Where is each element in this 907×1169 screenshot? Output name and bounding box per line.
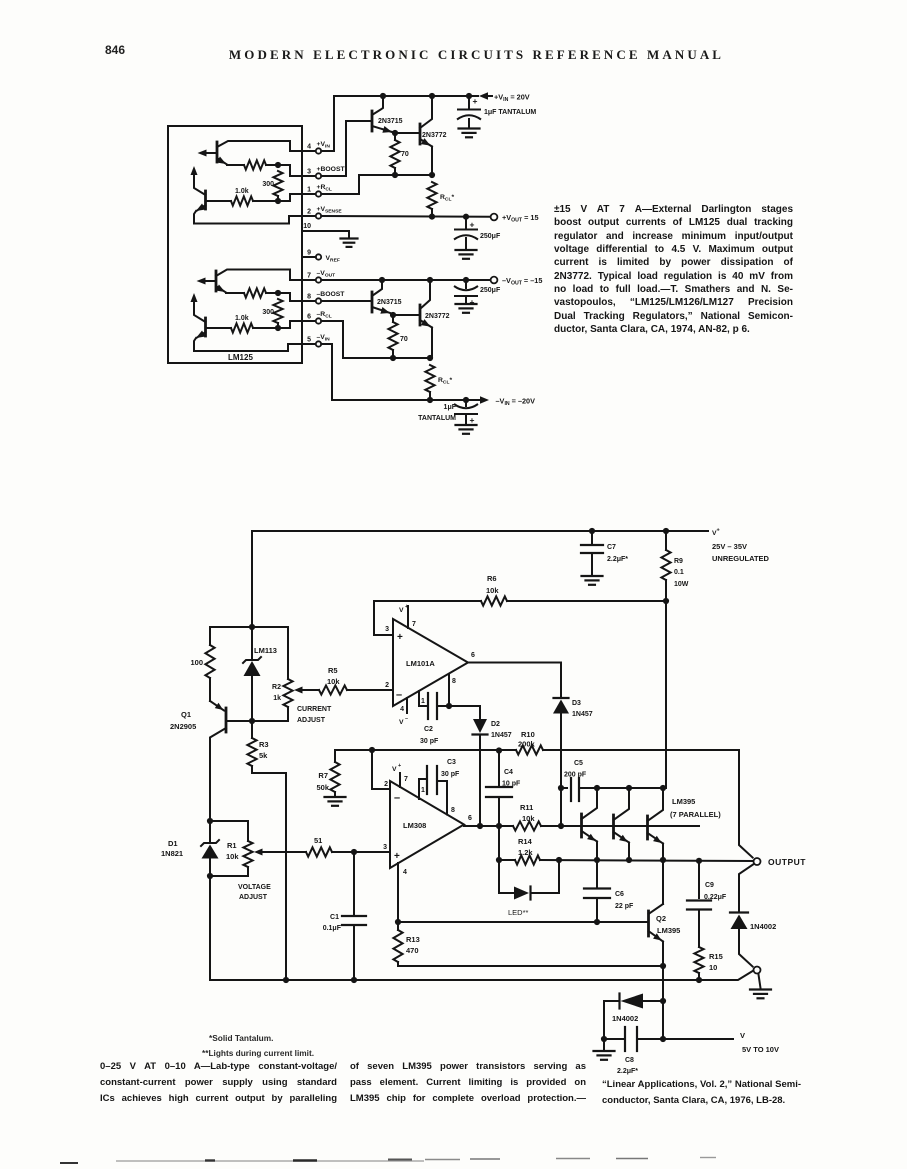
node collector #1 xyxy=(594,785,600,791)
svg-text:2N3715: 2N3715 xyxy=(377,299,402,306)
svg-text:+: + xyxy=(470,297,475,307)
svg-text:C9: C9 xyxy=(705,882,714,889)
node C8 line / Q2 emitter column xyxy=(660,1036,666,1042)
node out/2N3715 collector (lower) xyxy=(379,277,385,283)
internal resistor 300 (lower) xyxy=(262,299,282,328)
arrowhead on -V rail xyxy=(480,396,489,404)
IC U1 LM125 outline xyxy=(168,126,302,363)
svg-text:+: + xyxy=(470,415,475,425)
wire pin8 node to D2 xyxy=(449,706,480,719)
node sense/250uF xyxy=(463,214,469,220)
svg-text:R14: R14 xyxy=(518,837,533,846)
svg-text:–BOOST: –BOOST xyxy=(317,291,346,298)
pin 6 of LM125 xyxy=(307,311,332,324)
svg-text:+: + xyxy=(470,220,475,230)
resistor RCL* (lower) xyxy=(425,365,452,400)
node rail/tantalum (lower) xyxy=(463,397,469,403)
description paragraph (top circuit) xyxy=(554,203,793,336)
svg-text:10 pF: 10 pF xyxy=(502,781,521,788)
R13 return line xyxy=(398,965,663,967)
svg-text:C2: C2 xyxy=(424,726,433,733)
svg-text:470: 470 xyxy=(406,946,419,955)
svg-text:R15: R15 xyxy=(709,952,723,961)
svg-text:+VIN​ = 20V: +VIN​ = 20V xyxy=(494,93,530,104)
node LM308 out / C4 / R14 xyxy=(496,823,502,829)
svg-text:+BOOST: +BOOST xyxy=(317,166,346,173)
node rail/2N3772 collector xyxy=(429,93,435,99)
svg-text:22 pF: 22 pF xyxy=(615,903,634,910)
Q2 base line xyxy=(398,921,648,923)
label -VIN = -20V xyxy=(496,397,536,408)
svg-text:–VIN​ = –20V: –VIN​ = –20V xyxy=(496,397,536,408)
node emitter #2 xyxy=(626,857,632,863)
svg-text:2.2μF*: 2.2μF* xyxy=(607,556,628,563)
svg-text:8: 8 xyxy=(307,294,311,301)
ground below tantalum (lower) xyxy=(456,425,477,434)
svg-text:10: 10 xyxy=(709,963,717,972)
node RCL top (lower) xyxy=(427,355,433,361)
wire 1N4002 to C8 node xyxy=(603,1001,605,1039)
svg-text:V: V xyxy=(399,719,404,726)
svg-text:TANTALUM: TANTALUM xyxy=(418,415,456,422)
resistor R14 1.2k xyxy=(496,826,540,865)
node 2N3715 emitter / base / 70 (lower) xyxy=(390,312,396,318)
node rail/C1 xyxy=(351,977,357,983)
R10 feedback line to output xyxy=(335,730,753,858)
label LM395 (7 PARALLEL) xyxy=(670,797,721,819)
svg-text:C5: C5 xyxy=(574,760,583,767)
svg-text:R13: R13 xyxy=(406,935,420,944)
svg-text:250μF: 250μF xyxy=(480,233,501,240)
diode D3 1N457 xyxy=(553,663,593,789)
pin 1 of LM125 xyxy=(307,184,332,197)
node collector #2 xyxy=(626,785,632,791)
svg-text:9: 9 xyxy=(307,250,311,257)
node D3 / C5 xyxy=(558,785,564,791)
svg-text:1: 1 xyxy=(421,787,425,794)
node rail/R3 xyxy=(283,977,289,983)
wire pin6 to current-limit node (lower) xyxy=(321,321,430,358)
node R10 line / C4 xyxy=(496,747,502,753)
emitter/output line xyxy=(540,860,753,861)
svg-text:2N3772: 2N3772 xyxy=(422,132,447,139)
svg-text:D3: D3 xyxy=(572,700,581,707)
svg-text:UNREGULATED: UNREGULATED xyxy=(712,554,770,563)
node emitter #3 xyxy=(660,857,666,863)
svg-text:LED**: LED** xyxy=(508,908,529,917)
collector rail xyxy=(579,787,666,789)
svg-text:Q1: Q1 xyxy=(181,710,191,719)
capacitor 1uF tantalum (upper) xyxy=(457,96,536,128)
svg-text:1.0k: 1.0k xyxy=(235,315,249,322)
svg-text:1N4002: 1N4002 xyxy=(612,1014,638,1023)
svg-text:+: + xyxy=(405,604,408,610)
V+ column down to collector rail xyxy=(665,601,667,788)
svg-text:51: 51 xyxy=(314,836,322,845)
svg-text:0.1: 0.1 xyxy=(674,569,684,576)
caption column 3 xyxy=(602,1077,801,1109)
svg-text:+: + xyxy=(398,763,401,769)
node collector #3 xyxy=(660,785,666,791)
pin 3 of LM125 xyxy=(307,166,345,179)
svg-text:CURRENT: CURRENT xyxy=(297,706,332,713)
svg-text:D1: D1 xyxy=(168,839,178,848)
capacitor C5 200pF xyxy=(561,760,598,801)
ground below 250uF (lower) xyxy=(456,304,477,313)
svg-text:2: 2 xyxy=(384,781,388,788)
resistor R11 10k xyxy=(513,803,699,831)
svg-text:LM395: LM395 xyxy=(657,926,680,935)
caption column 2 xyxy=(350,1059,586,1107)
svg-text:RCL​*: RCL​* xyxy=(440,194,454,203)
resistor R7 50k xyxy=(316,750,339,796)
node LM113/R2/Q1 base/R3 xyxy=(249,718,255,724)
svg-text:5V TO 10V: 5V TO 10V xyxy=(742,1045,779,1054)
transistor LM395 #1 xyxy=(582,788,598,860)
capacitor 1uF tantalum (lower) xyxy=(418,400,478,425)
node pin8/C2/D2 xyxy=(446,703,452,709)
svg-text:300: 300 xyxy=(262,181,274,188)
resistor 70 (upper) xyxy=(390,133,408,175)
svg-text:10k: 10k xyxy=(226,852,239,861)
svg-text:1N457: 1N457 xyxy=(572,711,593,718)
diode 1N4002 (across output) xyxy=(730,865,776,967)
node C8 / ground xyxy=(601,1036,607,1042)
resistor R13 470 xyxy=(393,863,419,966)
svg-text:1: 1 xyxy=(307,187,311,194)
svg-text:8: 8 xyxy=(452,678,456,685)
svg-text:2N3772: 2N3772 xyxy=(425,313,450,320)
svg-text:VOLTAGE: VOLTAGE xyxy=(238,884,271,891)
resistor 51 xyxy=(306,836,389,857)
+V sense line to output xyxy=(321,215,490,218)
svg-text:C7: C7 xyxy=(607,544,616,551)
transistor 2N3715 (upper) xyxy=(321,96,402,176)
transistor LM395 #3 xyxy=(648,788,664,860)
svg-text:R5: R5 xyxy=(328,666,338,675)
svg-text:C4: C4 xyxy=(504,769,513,776)
svg-text:1k: 1k xyxy=(273,695,281,702)
lower output terminal xyxy=(754,967,761,974)
svg-text:70: 70 xyxy=(401,151,409,158)
svg-text:RCL​*: RCL​* xyxy=(438,377,452,386)
svg-text:30 pF: 30 pF xyxy=(441,771,460,778)
node RCL top xyxy=(429,172,435,178)
transistor 2N3715 (lower) xyxy=(321,280,401,314)
+V input rail 20V xyxy=(334,95,492,97)
svg-text:10k: 10k xyxy=(522,814,535,823)
node 100/LM113/R2 xyxy=(249,624,255,630)
svg-text:+: + xyxy=(397,632,403,643)
svg-text:4: 4 xyxy=(400,706,404,713)
svg-text:–: – xyxy=(405,716,408,722)
node rail/2N3715 collector xyxy=(380,93,386,99)
LM125 internal transistor T1a xyxy=(198,141,316,165)
svg-text:30 pF: 30 pF xyxy=(420,738,439,745)
svg-text:R3: R3 xyxy=(259,740,269,749)
transistor LM395 #2 xyxy=(614,788,630,860)
svg-text:2: 2 xyxy=(385,682,389,689)
svg-text:100: 100 xyxy=(190,658,203,667)
resistor R9 0.1 10W xyxy=(661,531,688,601)
node line LM113 top xyxy=(210,626,288,628)
svg-text:1N4002: 1N4002 xyxy=(750,922,776,931)
ground below 250uF (upper) xyxy=(456,250,477,259)
pin 9 stub wire xyxy=(302,256,316,258)
transistor Q2 LM395 xyxy=(649,860,681,1039)
svg-text:8: 8 xyxy=(451,807,455,814)
ground below tantalum (upper) xyxy=(459,129,480,138)
svg-text:200k: 200k xyxy=(518,740,536,749)
feedback resistor R6 10k xyxy=(374,574,666,635)
capacitor C2 30pF xyxy=(419,693,449,745)
svg-text:1: 1 xyxy=(421,698,425,705)
svg-text:0.1μF: 0.1μF xyxy=(323,925,342,932)
svg-text:ADJUST: ADJUST xyxy=(297,717,326,724)
svg-text:1μF: 1μF xyxy=(444,404,457,411)
svg-text:4: 4 xyxy=(403,869,407,876)
capacitor 250uF (lower) xyxy=(454,280,501,307)
svg-text:R7: R7 xyxy=(318,771,328,780)
svg-text:1N821: 1N821 xyxy=(161,849,183,858)
wire to LM308 pin 2 xyxy=(372,750,389,789)
svg-text:LM101A: LM101A xyxy=(406,659,435,668)
capacitor C4 10pF xyxy=(486,751,521,827)
svg-text:70: 70 xyxy=(400,336,408,343)
label V+ 25V-35V UNREGULATED xyxy=(712,528,770,564)
capacitor 250uF (upper) xyxy=(454,217,501,249)
svg-text:C1: C1 xyxy=(330,914,339,921)
node return line / Q2 emitter xyxy=(660,963,666,969)
pin 8 of LM125 xyxy=(307,291,345,304)
svg-text:25V – 35V: 25V – 35V xyxy=(712,542,747,551)
svg-text:3: 3 xyxy=(383,844,387,851)
svg-text:V: V xyxy=(399,607,404,614)
output terminal -VOUT xyxy=(491,276,543,287)
transistor 2N3772 (lower) xyxy=(393,280,450,358)
svg-text:10k: 10k xyxy=(327,677,340,686)
ground at lower terminal xyxy=(750,975,771,999)
svg-text:–: – xyxy=(394,792,400,804)
svg-text:Q2: Q2 xyxy=(656,914,666,923)
svg-text:2N3715: 2N3715 xyxy=(378,118,403,125)
svg-text:10k: 10k xyxy=(486,586,499,595)
svg-text:LM395: LM395 xyxy=(672,797,695,806)
capacitor C7 2.2uF xyxy=(581,531,628,575)
svg-text:LM308: LM308 xyxy=(403,821,426,830)
node base line / C6 xyxy=(594,919,600,925)
svg-text:250μF: 250μF xyxy=(480,287,501,294)
ground at pin 10 xyxy=(341,239,358,247)
pin 9 of LM125 xyxy=(307,250,340,264)
ground below R7 xyxy=(325,797,346,806)
pin 4 of LM125 xyxy=(307,141,330,154)
pin 7 of LM125 xyxy=(307,270,335,283)
svg-text:ADJUST: ADJUST xyxy=(239,894,268,901)
svg-text:50k: 50k xyxy=(316,783,329,792)
node 70 ohm bottom xyxy=(392,172,398,178)
LM125 internal transistor T1b xyxy=(191,166,316,224)
resistor R15 10 xyxy=(694,947,722,980)
wire pin1 to current-limit node xyxy=(321,175,432,194)
OUTPUT terminal xyxy=(754,857,807,867)
footnotes xyxy=(209,1033,273,1043)
transistor 2N3772 (upper) xyxy=(395,96,447,175)
svg-text:+: + xyxy=(394,851,400,862)
arrowhead on +V rail xyxy=(479,92,488,100)
pin 5 of LM125 xyxy=(307,334,330,347)
svg-text:2.2μF*: 2.2μF* xyxy=(617,1068,638,1075)
svg-text:R1: R1 xyxy=(227,841,237,850)
node Q1 collector / D1 / R1 xyxy=(207,818,213,824)
pin 2 of LM125 xyxy=(307,206,342,219)
node: junction 1.0k / 300 / pin 1 xyxy=(275,194,316,204)
svg-text:3: 3 xyxy=(385,626,389,633)
svg-text:OUTPUT: OUTPUT xyxy=(768,857,806,867)
internal resistor (upper, unlabeled) xyxy=(227,160,278,169)
svg-text:6: 6 xyxy=(468,815,472,822)
resistor R3 5k xyxy=(247,721,286,980)
ground return rail (bottom) xyxy=(210,876,753,980)
node 2N3715 emitter / 2N3772 base / 70 ohm xyxy=(392,130,398,136)
svg-text:R6: R6 xyxy=(487,574,497,583)
svg-text:1.0k: 1.0k xyxy=(235,188,249,195)
svg-text:1N457: 1N457 xyxy=(491,732,512,739)
node R9/R6 feedback xyxy=(663,598,669,604)
resistor 100 xyxy=(190,627,214,701)
node base line / D3 xyxy=(558,823,564,829)
svg-text:5: 5 xyxy=(307,337,311,344)
diode D2 1N457 xyxy=(473,719,512,826)
LED (lights during current limit) xyxy=(499,860,559,917)
svg-text:LM113: LM113 xyxy=(254,646,277,655)
node 70 bottom (lower) xyxy=(390,355,396,361)
svg-text:VREF​: VREF​ xyxy=(326,255,340,264)
bottom scan rule xyxy=(60,1158,716,1164)
svg-text:200 pF: 200 pF xyxy=(564,772,587,779)
svg-text:4: 4 xyxy=(307,144,311,151)
svg-text:7: 7 xyxy=(307,273,311,280)
ground below C8 node xyxy=(594,1039,615,1060)
diode 1N4002 (bottom clamp) xyxy=(604,994,663,1024)
svg-text:7: 7 xyxy=(412,621,416,628)
svg-text:1.2k: 1.2k xyxy=(518,848,533,857)
node rail/R9 xyxy=(663,528,669,534)
svg-text:1μF TANTALUM: 1μF TANTALUM xyxy=(484,109,536,116)
node LM308 pin4 / R13 / Q2 base xyxy=(395,919,401,925)
LM125 internal transistor T2a xyxy=(197,270,316,293)
svg-text:–: – xyxy=(396,689,402,701)
svg-text:V: V xyxy=(740,1031,745,1040)
zener diode D1 1N821 xyxy=(161,821,219,876)
internal resistor (lower, unlabeled) xyxy=(226,288,278,297)
svg-text:LM125: LM125 xyxy=(228,353,253,362)
capacitor C8 2.2uF xyxy=(604,1027,733,1075)
svg-text:2: 2 xyxy=(307,209,311,216)
-V out line xyxy=(321,279,490,281)
node rail/RCL (lower) xyxy=(427,397,433,403)
svg-text:–VOUT​ = –15: –VOUT​ = –15 xyxy=(502,276,542,287)
op-amp U3 LM308 xyxy=(383,763,472,876)
svg-text:300: 300 xyxy=(262,309,274,316)
transistor Q1 2N2905 xyxy=(170,701,252,821)
op-amp U2 LM101A xyxy=(385,604,475,726)
svg-text:R2: R2 xyxy=(272,684,281,691)
svg-text:10W: 10W xyxy=(674,581,689,588)
node Q2 emitter / 1N4002 anode xyxy=(660,998,666,1004)
svg-text:6: 6 xyxy=(307,314,311,321)
svg-text:+: + xyxy=(473,96,478,106)
IC U1 label LM125 xyxy=(228,353,253,362)
svg-text:C6: C6 xyxy=(615,891,624,898)
zener diode LM113 xyxy=(243,627,277,721)
-V input rail -20V xyxy=(332,399,480,401)
internal resistor 1.0k (upper) xyxy=(207,188,278,206)
svg-text:3: 3 xyxy=(307,169,311,176)
svg-text:D2: D2 xyxy=(491,721,500,728)
svg-text:7: 7 xyxy=(404,776,408,783)
output terminal +VOUT xyxy=(491,213,539,224)
internal resistor 1.0k (lower) xyxy=(207,315,278,333)
resistor 70 (lower) xyxy=(388,315,407,358)
svg-text:2N2905: 2N2905 xyxy=(170,722,196,731)
node emitter #1 xyxy=(594,857,600,863)
node rail/R15 xyxy=(696,977,702,983)
capacitor C3 30pF xyxy=(419,759,460,815)
node out/250uF (lower) xyxy=(463,277,469,283)
resistor R5 10k xyxy=(319,666,392,695)
svg-text:R9: R9 xyxy=(674,558,683,565)
svg-text:(7 PARALLEL): (7 PARALLEL) xyxy=(670,810,721,819)
node LM308 out / D2 xyxy=(477,823,483,829)
svg-text:R11: R11 xyxy=(520,803,533,812)
pin 10 of LM125 xyxy=(302,223,349,237)
node 51 line / C1 xyxy=(351,849,357,855)
V+ unregulated rail xyxy=(252,531,708,627)
svg-text:V: V xyxy=(392,766,397,773)
node emitter line / LED xyxy=(556,857,562,863)
node rail/tantalum cap xyxy=(466,93,472,99)
caption column 1 xyxy=(100,1059,337,1107)
svg-text:10: 10 xyxy=(303,223,311,230)
node: junction internal resistor / 300 / pin 8 xyxy=(275,290,316,301)
svg-text:+: + xyxy=(717,528,720,534)
node: junction internal resistor / 300 / pin 3 xyxy=(275,162,316,176)
label V 5V TO 10V xyxy=(740,1031,779,1054)
svg-text:0.22μF: 0.22μF xyxy=(704,894,727,901)
svg-text:C3: C3 xyxy=(447,759,456,766)
potentiometer R1 10k VOLTAGE ADJUST xyxy=(210,821,306,901)
node rail/C7 xyxy=(589,528,595,534)
page number xyxy=(105,43,125,57)
node out/2N3772 collector (lower) xyxy=(427,277,433,283)
capacitor C1 0.1uF xyxy=(323,852,366,980)
label +VIN = 20V xyxy=(494,93,530,104)
svg-text:+VOUT​ = 15: +VOUT​ = 15 xyxy=(502,213,539,224)
wire pin5 to -V rail xyxy=(321,344,332,400)
capacitor C9 0.22uF xyxy=(687,861,727,947)
running head title xyxy=(23,47,907,63)
LM125 internal transistor T2b xyxy=(191,293,316,351)
potentiometer R2 1k CURRENT ADJUST xyxy=(272,627,332,724)
svg-text:6: 6 xyxy=(471,652,475,659)
node emitter line / C9 xyxy=(696,858,702,864)
svg-text:C8: C8 xyxy=(625,1057,634,1064)
resistor RCL* (upper) xyxy=(427,182,454,217)
node sense/RCL xyxy=(429,214,435,220)
capacitor C6 22pF xyxy=(584,860,634,922)
LM101A output wire pin6 xyxy=(468,662,561,664)
